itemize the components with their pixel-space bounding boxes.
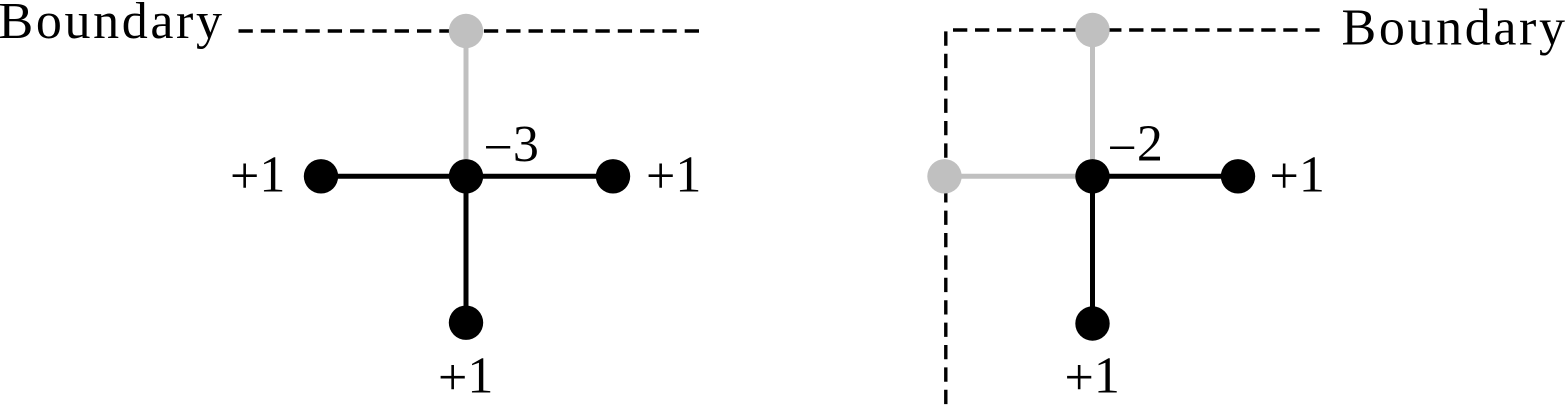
- svg-text:+1: +1: [1270, 146, 1325, 205]
- wire left edge (left diagram): [321, 174, 466, 179]
- node right (right diagram): [1221, 159, 1255, 193]
- node bottom (right diagram): [1075, 306, 1109, 340]
- node center (left diagram): [449, 159, 483, 193]
- node center (right diagram): [1075, 159, 1109, 193]
- wire right edge (left diagram): [466, 174, 613, 179]
- node left (left diagram): [304, 159, 338, 193]
- boundary dashed line vertical (right): [944, 31, 947, 406]
- svg-text:−2: −2: [1108, 116, 1163, 177]
- gray edge left (right diagram): [945, 174, 1093, 179]
- svg-text:−3: −3: [484, 116, 539, 176]
- gray edge top (right diagram): [1090, 30, 1095, 176]
- svg-text:+1: +1: [646, 146, 701, 205]
- node right (left diagram): [596, 159, 630, 193]
- boundary dashed line horizontal (right): [953, 28, 1320, 31]
- gray boundary node (left diagram): [449, 14, 483, 48]
- svg-text:Boundary: Boundary: [1342, 0, 1566, 57]
- gray boundary node top (right diagram): [1075, 13, 1109, 47]
- gray edge top (left diagram): [464, 31, 469, 176]
- svg-text:+1: +1: [438, 348, 493, 406]
- svg-text:+1: +1: [1065, 348, 1120, 406]
- wire bottom edge (left diagram): [464, 176, 469, 322]
- boundary dashed line (left): [239, 29, 700, 32]
- gray boundary node left (right diagram): [927, 159, 961, 193]
- node bottom (left diagram): [449, 306, 483, 340]
- svg-text:+1: +1: [230, 146, 285, 205]
- wire right edge (right diagram): [1093, 174, 1239, 179]
- wire bottom edge (right diagram): [1090, 176, 1095, 323]
